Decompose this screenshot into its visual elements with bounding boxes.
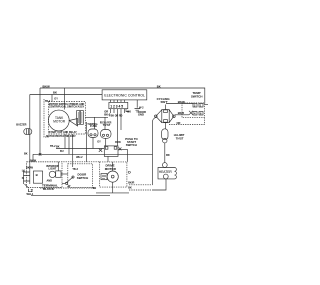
svg-text:BK/W: BK/W xyxy=(26,165,34,169)
svg-text:BLOCK: BLOCK xyxy=(43,187,55,191)
svg-text:BUZZER: BUZZER xyxy=(16,123,26,126)
svg-text:W-2: W-2 xyxy=(139,106,144,109)
svg-text:RUN: RUN xyxy=(115,141,121,144)
svg-text:MOTOR PROTECTOR ASSY: MOTOR PROTECTOR ASSY xyxy=(46,134,76,138)
svg-text:FUSE: FUSE xyxy=(90,124,97,128)
svg-text:TH'ST: TH'ST xyxy=(103,123,111,127)
svg-text:MOTOR: MOTOR xyxy=(53,120,66,124)
svg-text:HEATER: HEATER xyxy=(159,170,173,174)
svg-text:RD: RD xyxy=(166,154,170,157)
svg-text:TB-3: TB-3 xyxy=(72,168,78,171)
svg-text:SWITCH: SWITCH xyxy=(126,143,137,147)
svg-text:BK/W: BK/W xyxy=(30,160,37,163)
svg-text:BK/W: BK/W xyxy=(178,100,185,104)
svg-text:BK: BK xyxy=(53,91,57,95)
svg-text:SWITCH: SWITCH xyxy=(191,94,202,98)
svg-text:Y BK OR RD: Y BK OR RD xyxy=(108,114,122,118)
svg-text:GY: GY xyxy=(54,97,58,100)
svg-text:BU: BU xyxy=(60,150,64,153)
svg-text:BK: BK xyxy=(56,146,60,149)
svg-text:SWITCH: SWITCH xyxy=(77,176,88,180)
svg-text:CENTRIFUGAL SWITCH ASSY: CENTRIFUGAL SWITCH ASSY xyxy=(49,105,85,109)
svg-text:OR: OR xyxy=(177,121,181,125)
svg-text:GY: GY xyxy=(97,140,101,143)
svg-text:BK/R: BK/R xyxy=(128,182,134,185)
svg-text:BU: BU xyxy=(93,187,97,190)
svg-text:1 2 3 4 5: 1 2 3 4 5 xyxy=(110,104,123,108)
svg-text:BK: BK xyxy=(157,85,161,89)
svg-text:AND: AND xyxy=(47,180,53,183)
svg-text:TB-1: TB-1 xyxy=(45,100,51,103)
svg-text:WH-2: WH-2 xyxy=(76,156,83,159)
svg-text:N: N xyxy=(22,176,24,180)
svg-text:B: B xyxy=(36,173,38,177)
svg-text:BK: BK xyxy=(24,153,28,156)
svg-text:BK/W: BK/W xyxy=(43,84,51,88)
svg-text:L1: L1 xyxy=(22,169,26,173)
svg-text:ELECTRONIC CONTROL: ELECTRONIC CONTROL xyxy=(104,94,144,98)
svg-text:TH'ST: TH'ST xyxy=(176,136,184,140)
svg-text:BK/R: BK/R xyxy=(178,111,184,115)
svg-text:HI-LIMIT: HI-LIMIT xyxy=(174,133,185,137)
svg-text:WH-1: WH-1 xyxy=(27,192,34,196)
svg-text:BK: BK xyxy=(127,110,131,114)
svg-text:BK: BK xyxy=(128,186,132,189)
svg-text:GND: GND xyxy=(138,112,144,116)
svg-text:BK-2: BK-2 xyxy=(104,112,111,116)
svg-text:LIGHT: LIGHT xyxy=(49,167,57,171)
svg-text:MOTOR: MOTOR xyxy=(105,167,117,171)
svg-text:SW'T: SW'T xyxy=(161,100,168,104)
